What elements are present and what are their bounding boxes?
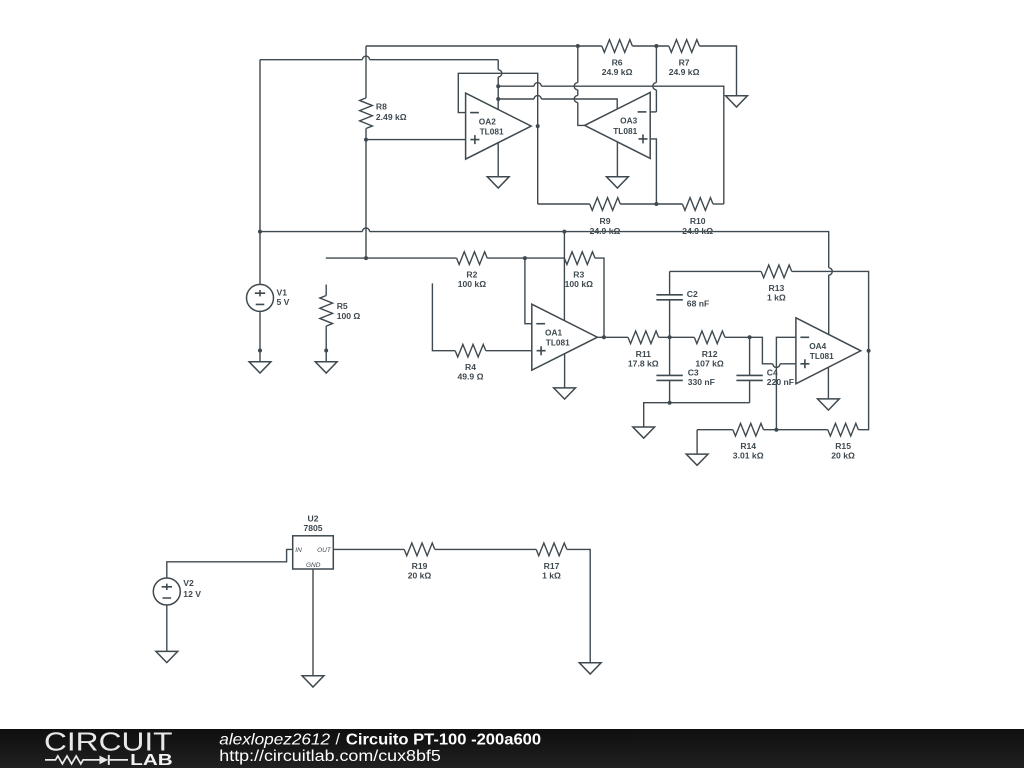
svg-text:R2: R2 <box>466 270 477 280</box>
wire OA1 output row <box>597 336 628 338</box>
wire R9-R10 <box>620 203 682 205</box>
svg-text:R9: R9 <box>600 216 611 226</box>
ground (U2) <box>302 676 324 687</box>
svg-text:OA4: OA4 <box>809 341 826 351</box>
svg-text:220 nF: 220 nF <box>767 377 794 387</box>
wire R14 lead <box>697 429 733 431</box>
node supply wire2 <box>496 97 500 101</box>
wire R19 to R17 <box>435 548 536 550</box>
ground (OA2) <box>487 177 509 188</box>
svg-text:LAB: LAB <box>130 752 173 768</box>
svg-text:R3: R3 <box>573 270 584 280</box>
svg-text:2.49 kΩ: 2.49 kΩ <box>376 112 407 122</box>
svg-text:24.9 kΩ: 24.9 kΩ <box>590 226 621 236</box>
ground (OA4) <box>818 399 840 410</box>
svg-text:3.01 kΩ: 3.01 kΩ <box>733 451 764 461</box>
wire 2: supply to OA3 V+ <box>498 98 534 100</box>
svg-text:24.9 kΩ: 24.9 kΩ <box>682 226 713 236</box>
op-amp OA4 <box>796 318 861 384</box>
ground (OA1) <box>554 388 576 399</box>
wire OA1 V- to ground <box>564 354 566 388</box>
voltage source V1 <box>247 284 274 311</box>
wire OA3 non-inverting input to R9/R10 junction <box>650 139 656 204</box>
node R2-R3 / OA1 inverting <box>523 256 527 260</box>
wire R3 feedback down to OA1 output <box>595 258 604 337</box>
resistor R19 <box>404 543 435 556</box>
resistor R8 <box>365 46 367 98</box>
resistor R17 <box>536 543 567 556</box>
svg-text:1 kΩ: 1 kΩ <box>542 570 561 580</box>
ground (V2) <box>156 651 178 662</box>
wire R10 right up to wire1 <box>713 203 724 205</box>
wire R13 to OA4 output <box>792 271 869 350</box>
wire R12 to C4 node <box>725 336 750 338</box>
svg-text:R4: R4 <box>465 362 476 372</box>
wire OA2 V+ feed <box>497 60 499 70</box>
node R12-C4 / OA4 plus <box>748 335 752 339</box>
resistor R15 <box>828 423 859 436</box>
wire OA1 non-inverting input with R4 <box>432 283 455 350</box>
resistor R13 <box>761 265 792 278</box>
resistor R2 <box>457 252 488 265</box>
node R8-OA2 plus <box>364 138 368 142</box>
wire R13 row <box>670 270 762 272</box>
svg-text:100 kΩ: 100 kΩ <box>458 279 487 289</box>
wire R7 to ground <box>699 46 736 96</box>
ground (OA3) <box>607 177 629 188</box>
svg-text:107 kΩ: 107 kΩ <box>695 358 724 368</box>
wire OA3 V- to ground <box>616 142 618 177</box>
ground (R14) <box>686 454 708 465</box>
resistor R11 <box>628 331 659 344</box>
svg-text:R5: R5 <box>337 301 348 311</box>
wire +5V bus <box>260 231 362 233</box>
svg-text:330 nF: 330 nF <box>688 377 715 387</box>
svg-text:Circuito PT-100 -200a600: Circuito PT-100 -200a600 <box>346 732 541 749</box>
svg-text:R12: R12 <box>702 349 718 359</box>
svg-text:OUT: OUT <box>317 547 332 554</box>
node V1 ground lead <box>258 349 262 353</box>
wire OA3 output feedback up to R6/R7 node <box>578 103 585 126</box>
svg-text:http://circuitlab.com/cux8bf5: http://circuitlab.com/cux8bf5 <box>219 748 441 765</box>
svg-text:R19: R19 <box>412 561 428 571</box>
resistor R14 <box>733 423 764 436</box>
wire U2 OUT to R19 <box>333 548 404 550</box>
wire left +5V rail vertical <box>259 60 261 285</box>
svg-text:24.9 kΩ: 24.9 kΩ <box>602 67 633 77</box>
wire OA2 V- to ground <box>497 143 499 177</box>
node R11-R12 / C2-C3 <box>668 335 672 339</box>
svg-text:R13: R13 <box>769 283 785 293</box>
wire OA1 inverting input <box>525 258 532 324</box>
node R8-R2 row <box>364 256 368 260</box>
svg-text:R17: R17 <box>544 561 560 571</box>
wire R2 row <box>326 257 457 259</box>
svg-text:7805: 7805 <box>303 523 322 533</box>
wire R8 junction to OA2 non-inverting input <box>366 139 466 141</box>
wire 1: supply to R10 right <box>498 85 534 87</box>
resistor R10 <box>682 198 713 211</box>
svg-text:V1: V1 <box>277 288 288 298</box>
svg-text:TL081: TL081 <box>480 127 504 137</box>
svg-text:R11: R11 <box>636 349 652 359</box>
svg-text:TL081: TL081 <box>613 126 637 136</box>
wire OA4 non-inverting jog <box>750 337 773 364</box>
wire R14 left to ground <box>696 430 698 454</box>
wire between R6 and R7 <box>632 45 668 47</box>
wire U2 GND to ground <box>312 569 314 676</box>
svg-text:100 kΩ: 100 kΩ <box>565 279 594 289</box>
node OA1 output <box>602 335 606 339</box>
node OA4 output <box>867 349 871 353</box>
wire R15 up to OA4 output <box>858 351 868 430</box>
node OA2 output <box>536 124 540 128</box>
svg-text:20 kΩ: 20 kΩ <box>408 570 432 580</box>
ground (C3/C4) <box>633 427 655 438</box>
resistor R12 <box>694 331 725 344</box>
wire OA4 V- to ground <box>827 367 829 399</box>
capacitor C2 <box>669 271 671 294</box>
wire OA1 V+ from bus <box>563 232 565 321</box>
svg-text:12 V: 12 V <box>183 589 201 599</box>
voltage regulator U2 7805 <box>293 536 334 569</box>
svg-text:C2: C2 <box>687 289 698 299</box>
wire R2 to R3 <box>487 257 564 259</box>
CircuitLab logo resistor-diode glyph <box>45 756 128 764</box>
ground (R5) <box>315 362 337 373</box>
svg-text:R10: R10 <box>690 216 706 226</box>
op-amp OA2 <box>466 93 532 159</box>
node C3-C4 bottom <box>668 401 672 405</box>
svg-text:20 kΩ: 20 kΩ <box>831 451 855 461</box>
svg-text:24.9 kΩ: 24.9 kΩ <box>669 67 700 77</box>
node R9-R10 <box>654 202 658 206</box>
wire top rail from R8 to R6 <box>366 45 602 47</box>
svg-text:OA3: OA3 <box>620 116 637 126</box>
svg-text:100 Ω: 100 Ω <box>337 311 361 321</box>
svg-text:R8: R8 <box>376 101 387 111</box>
node R14-R15 / OA4 minus <box>774 428 778 432</box>
wire OA4 inverting input down to R14/R15 <box>776 337 796 429</box>
svg-text:GND: GND <box>306 562 321 569</box>
wire V1 to ground <box>259 311 261 361</box>
node wireA-R6 / OA3 feedback <box>576 44 580 48</box>
svg-text:5 V: 5 V <box>277 297 290 307</box>
wire OA3 inverting input to R6/R7 junction <box>650 111 656 113</box>
svg-text:OA2: OA2 <box>479 116 496 126</box>
wire R14 to R15 <box>764 429 828 431</box>
op-amp OA3 (mirrored) <box>585 92 651 158</box>
wire B: +5V rail top branch <box>260 59 362 61</box>
node R5 ground lead <box>324 349 328 353</box>
svg-text:TL081: TL081 <box>546 338 570 348</box>
svg-text:R14: R14 <box>740 441 756 451</box>
node bus-OA1 V+ <box>562 230 566 234</box>
svg-text:OA1: OA1 <box>545 327 562 337</box>
resistor R7 <box>669 40 700 53</box>
resistor R5 <box>325 285 327 296</box>
ground (R7) <box>726 96 748 107</box>
voltage source V2 <box>153 578 180 605</box>
resistor R4 <box>455 344 486 357</box>
wire R4 to OA1 <box>486 350 532 352</box>
svg-text:R15: R15 <box>835 441 851 451</box>
wire OA2 feedback (output to inverting input) <box>458 73 537 204</box>
svg-text:/: / <box>336 732 341 749</box>
capacitor C4 <box>749 337 751 375</box>
wire C3/C4 bottom to ground <box>644 403 750 427</box>
svg-text:68 nF: 68 nF <box>687 298 709 308</box>
svg-text:TL081: TL081 <box>810 351 834 361</box>
svg-text:alexlopez2612: alexlopez2612 <box>219 732 330 749</box>
ground (R17) <box>579 663 601 674</box>
node bus-V1 <box>258 230 262 234</box>
svg-text:17.8 kΩ: 17.8 kΩ <box>628 358 659 368</box>
resistor R9 <box>590 198 621 211</box>
resistor R6 <box>602 40 633 53</box>
resistor R3 <box>564 252 595 265</box>
node supply wire1 <box>496 84 500 88</box>
svg-text:49.9 Ω: 49.9 Ω <box>457 372 483 382</box>
node R6-R7 / OA3 inverting <box>654 44 658 48</box>
wire R9 row <box>538 203 590 205</box>
svg-text:1 kΩ: 1 kΩ <box>767 292 786 302</box>
wire V2 to ground <box>166 605 168 651</box>
wire R17 to ground <box>567 549 590 662</box>
wire V2 to U2 IN <box>167 549 293 578</box>
capacitor C3 <box>669 337 671 375</box>
op-amp OA1 <box>532 304 598 370</box>
wire R11 to R12 <box>659 336 695 338</box>
ground (V1) <box>249 362 271 373</box>
svg-text:V2: V2 <box>183 578 194 588</box>
svg-text:IN: IN <box>295 547 302 554</box>
svg-text:U2: U2 <box>308 514 319 524</box>
